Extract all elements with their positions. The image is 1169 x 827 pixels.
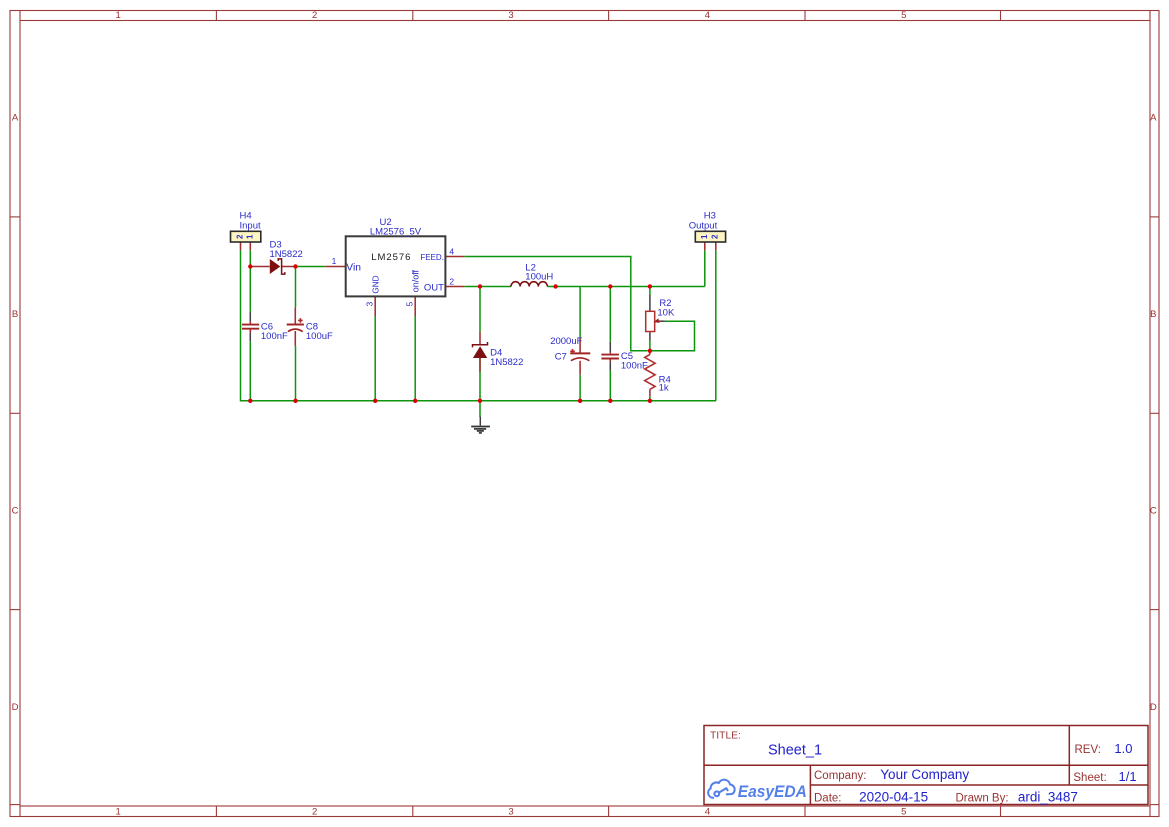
svg-text:2000uF: 2000uF [550, 336, 582, 347]
svg-text:10K: 10K [657, 307, 675, 318]
svg-text:Date:: Date: [814, 793, 842, 805]
svg-text:Vin: Vin [346, 263, 361, 274]
svg-text:4: 4 [449, 247, 454, 257]
svg-text:1N5822: 1N5822 [270, 249, 303, 260]
svg-text:Sheet_1: Sheet_1 [768, 743, 822, 759]
svg-text:Input: Input [240, 220, 261, 231]
svg-text:B: B [12, 309, 18, 320]
svg-text:5: 5 [901, 806, 906, 817]
svg-text:D: D [1150, 702, 1157, 713]
svg-text:TITLE:: TITLE: [710, 731, 741, 742]
svg-text:1: 1 [116, 806, 121, 817]
svg-text:3: 3 [508, 10, 513, 21]
svg-text:OUT: OUT [424, 282, 444, 293]
svg-text:C: C [12, 506, 19, 517]
svg-text:Drawn By:: Drawn By: [956, 793, 1009, 805]
svg-text:LM2576: LM2576 [371, 252, 411, 263]
svg-text:1/1: 1/1 [1119, 769, 1137, 784]
svg-text:100uF: 100uF [306, 331, 333, 342]
svg-text:4: 4 [705, 806, 710, 817]
svg-text:D: D [12, 702, 19, 713]
svg-text:Sheet:: Sheet: [1073, 772, 1106, 784]
svg-text:1: 1 [700, 234, 709, 239]
svg-text:REV:: REV: [1075, 744, 1101, 756]
svg-text:Company:: Company: [814, 770, 866, 782]
svg-text:C: C [1150, 506, 1157, 517]
svg-text:1: 1 [246, 234, 255, 239]
svg-text:3: 3 [508, 806, 513, 817]
svg-text:Output: Output [689, 220, 718, 231]
svg-text:5: 5 [901, 10, 906, 21]
svg-text:3: 3 [365, 302, 375, 307]
svg-text:1: 1 [332, 256, 337, 266]
svg-text:1: 1 [116, 10, 121, 21]
svg-text:GND: GND [372, 275, 381, 293]
svg-text:100uH: 100uH [525, 272, 553, 283]
svg-text:A: A [12, 113, 19, 124]
svg-text:C7: C7 [555, 352, 567, 363]
svg-text:on/off: on/off [410, 269, 420, 292]
svg-text:EasyEDA: EasyEDA [738, 783, 807, 801]
svg-text:B: B [1150, 309, 1156, 320]
svg-text:4: 4 [705, 10, 710, 21]
svg-text:Your Company: Your Company [880, 767, 969, 782]
svg-text:2: 2 [235, 234, 244, 239]
svg-text:1k: 1k [659, 382, 669, 393]
svg-text:100nF: 100nF [261, 331, 288, 342]
svg-text:LM2576_5V: LM2576_5V [370, 226, 422, 237]
svg-text:2: 2 [449, 277, 454, 287]
svg-text:1.0: 1.0 [1114, 741, 1132, 756]
svg-text:1N5822: 1N5822 [490, 357, 523, 368]
svg-text:FEED.: FEED. [420, 253, 444, 262]
svg-text:2: 2 [711, 234, 720, 239]
svg-text:5: 5 [405, 302, 415, 307]
svg-text:2: 2 [312, 10, 317, 21]
svg-text:100nF: 100nF [621, 361, 648, 372]
svg-text:2: 2 [312, 806, 317, 817]
svg-text:2020-04-15: 2020-04-15 [859, 790, 928, 805]
svg-text:ardi_3487: ardi_3487 [1018, 790, 1078, 805]
svg-text:A: A [1150, 113, 1157, 124]
